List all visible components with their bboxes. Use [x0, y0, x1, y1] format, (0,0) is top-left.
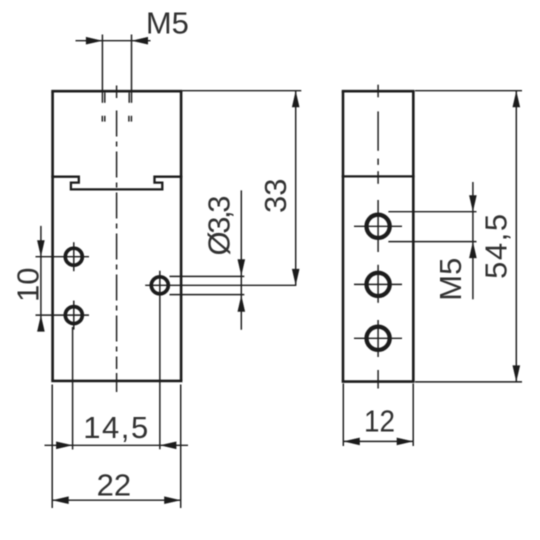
svg-text:14,5: 14,5	[83, 410, 148, 445]
svg-text:33: 33	[258, 179, 293, 213]
svg-text:M5: M5	[146, 6, 189, 41]
svg-text:10: 10	[10, 268, 45, 302]
svg-text:12: 12	[364, 404, 395, 439]
svg-text:Ø3,3: Ø3,3	[202, 196, 237, 256]
svg-text:M5: M5	[433, 258, 468, 301]
svg-text:22: 22	[97, 468, 131, 503]
svg-text:54,5: 54,5	[479, 214, 514, 279]
